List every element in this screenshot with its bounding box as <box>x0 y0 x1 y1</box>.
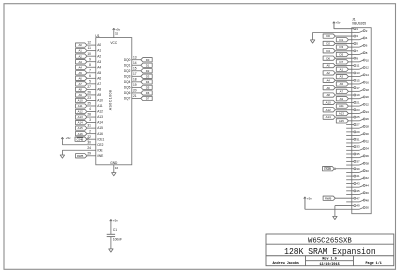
svg-text:D6: D6 <box>326 56 330 60</box>
J1 pin 14 circle + number <box>352 73 370 77</box>
svg-text:D2: D2 <box>326 42 330 46</box>
svg-text:35: 35 <box>356 152 360 156</box>
J1 pin 32 circle + number <box>352 139 370 143</box>
svg-text:A3: A3 <box>78 60 82 64</box>
U1 pin 15 (DQ2) wire + net flag D2 <box>124 66 152 73</box>
net flag D2 + wire to J1 pin 5 <box>323 41 352 45</box>
net flag A2 + wire to U1 pin 10 (A2) <box>76 52 102 59</box>
J1 pin 38 stub (unconnected) <box>346 164 352 166</box>
J1 pin 37 circle + number <box>352 159 360 163</box>
svg-text:D1: D1 <box>146 63 150 67</box>
svg-text:32: 32 <box>366 139 370 143</box>
J1 pin 20 circle + number <box>352 95 370 99</box>
J1 pin 12 circle + number <box>352 66 370 70</box>
net flag A1 + wire to U1 pin 11 (A1) <box>76 46 102 53</box>
svg-text:18: 18 <box>366 88 370 92</box>
svg-text:36: 36 <box>366 154 370 158</box>
J1 pin 30 stub (unconnected) <box>346 135 352 137</box>
svg-text:A5: A5 <box>78 71 82 75</box>
svg-text:D4: D4 <box>326 49 330 53</box>
net flag A14 + wire to J1 pin 25 <box>323 115 352 119</box>
svg-text:7: 7 <box>89 68 91 72</box>
svg-text:17: 17 <box>133 72 137 76</box>
net flag A15 + wire to U1 pin 31 (A15) <box>76 124 104 131</box>
svg-text:XBUS265: XBUS265 <box>352 22 366 26</box>
svg-text:15: 15 <box>133 66 137 70</box>
svg-text:13: 13 <box>133 55 137 59</box>
svg-text:49: 49 <box>356 204 360 208</box>
net flag A11 + wire to J1 pin 22 <box>336 104 352 108</box>
svg-text:CS4B: CS4B <box>324 167 331 171</box>
J1 pin 35 circle + number <box>352 152 360 156</box>
net flag CS4B (active low) + wire to U1 pin 22 (/CE1) <box>75 135 105 142</box>
svg-text:D7: D7 <box>340 60 344 64</box>
svg-text:A0: A0 <box>78 43 82 47</box>
svg-text:A10: A10 <box>97 99 103 103</box>
svg-text:23: 23 <box>87 96 91 100</box>
J1 pin 46 circle + number <box>352 191 370 195</box>
svg-text:W65C265SXB: W65C265SXB <box>308 237 352 245</box>
J1 pin 39 circle + number <box>352 167 360 171</box>
net flag A8 + wire to U1 pin 27 (A8) <box>76 85 102 92</box>
J1 pin 29 stub (unconnected) <box>346 131 352 133</box>
svg-text:A14: A14 <box>97 121 103 125</box>
J1 pin 42 circle + number <box>352 176 370 180</box>
J1 pin 21 circle + number <box>352 101 360 105</box>
J1 pin 26 circle + number <box>352 117 370 121</box>
svg-text:D0: D0 <box>146 58 150 62</box>
title text 128K SRAM Expansion <box>284 247 376 257</box>
J1 pin 47 circle + number <box>352 196 360 200</box>
svg-text:RWB: RWB <box>77 154 83 158</box>
J1 pin 11 circle + number <box>352 64 360 68</box>
svg-text:A14: A14 <box>326 115 331 119</box>
net flag A7 + wire to U1 pin 5 (A7) <box>76 79 102 86</box>
svg-text:A2: A2 <box>78 54 82 58</box>
svg-text:32: 32 <box>115 32 119 36</box>
net flag A15 + wire to J1 pin 26 <box>336 119 352 123</box>
J1 pin 36 stub (unconnected) <box>346 157 352 159</box>
svg-text:A8: A8 <box>326 93 330 97</box>
svg-text:VCC: VCC <box>110 41 117 45</box>
net flag D0 + wire to J1 pin 3 <box>323 34 352 38</box>
svg-text:D5: D5 <box>340 53 344 57</box>
svg-text:25: 25 <box>87 102 91 106</box>
svg-text:9: 9 <box>89 57 91 61</box>
J1 pin 33 circle + number <box>352 145 360 149</box>
J1 pin 34 circle + number <box>352 147 370 151</box>
J1 pin 15 circle + number <box>352 78 360 82</box>
svg-text:A15: A15 <box>78 126 83 130</box>
svg-text:16: 16 <box>366 80 370 84</box>
J1 pin 17 circle + number <box>352 86 360 90</box>
U1 pin 19 (DQ5) wire + net flag D5 <box>124 83 152 90</box>
capacitor C1 100nF decoupling <box>107 219 122 252</box>
svg-text:A8: A8 <box>78 87 82 91</box>
J1 pin 44 stub (unconnected) <box>346 186 352 188</box>
svg-text:A7: A7 <box>340 89 344 93</box>
svg-text:24: 24 <box>366 110 370 114</box>
J1 pin 5 circle + number <box>352 42 359 46</box>
+5V symbol + wire to J1 pin 50 <box>304 197 352 210</box>
J1 pin 48 stub (unconnected) <box>346 201 352 203</box>
net flag D6 + wire to J1 pin 9 <box>323 56 352 60</box>
svg-text:19: 19 <box>133 83 137 87</box>
svg-text:D6: D6 <box>146 91 150 95</box>
svg-text:DQ2: DQ2 <box>124 69 131 73</box>
net flag D1 + wire to J1 pin 4 <box>336 38 352 42</box>
svg-text:21: 21 <box>133 94 137 98</box>
svg-text:A13: A13 <box>339 112 344 116</box>
IC U1 AS6C1008 128Kx8 SRAM body <box>95 34 132 165</box>
svg-text:DQ3: DQ3 <box>124 74 131 78</box>
svg-text:18: 18 <box>133 77 137 81</box>
J1 pin 28 circle + number <box>352 125 370 129</box>
svg-text:6: 6 <box>89 74 91 78</box>
J1 pin 46 stub (unconnected) <box>346 194 352 196</box>
svg-text:128K SRAM Expansion: 128K SRAM Expansion <box>284 247 376 257</box>
svg-text:8: 8 <box>89 63 91 67</box>
+5V symbol + wire to U1 pin 32 (VCC) <box>113 27 121 37</box>
svg-text:DQ6: DQ6 <box>124 91 131 95</box>
J1 pin 45 stub (unconnected) <box>346 190 352 192</box>
J1 pin 27 circle + number <box>352 123 360 127</box>
title text W65C265SXB <box>308 237 352 245</box>
svg-text:39: 39 <box>356 167 360 171</box>
ground symbol + wire to J1 pin 2 <box>310 32 351 43</box>
svg-text:2: 2 <box>89 129 91 133</box>
net flag A16 + wire to U1 pin 2 (A16) <box>76 129 104 136</box>
J1 pin 41 stub (unconnected) <box>346 175 352 177</box>
J1 pin 50 circle + number <box>352 206 370 210</box>
J1 pin 33 stub (unconnected) <box>346 146 352 148</box>
svg-text:A6: A6 <box>78 76 82 80</box>
ground symbol + wire from U1 pin 16 (GND) <box>112 165 119 176</box>
J1 pin 7 circle + number <box>352 49 359 53</box>
svg-text:D0: D0 <box>326 34 330 38</box>
svg-text:Rev 1.0: Rev 1.0 <box>322 258 336 262</box>
svg-text:A7: A7 <box>97 82 101 86</box>
net flag A10 + wire to J1 pin 21 <box>323 100 352 104</box>
J1 pin 18 circle + number <box>352 88 370 92</box>
svg-text:41: 41 <box>356 174 360 178</box>
U1 pin 20 (DQ6) wire + net flag D6 <box>124 89 152 96</box>
net flag A7 + wire to J1 pin 18 <box>336 89 352 93</box>
svg-text:A11: A11 <box>97 104 103 108</box>
svg-text:25: 25 <box>356 115 360 119</box>
net flag A0 + wire to U1 pin 12 (A0) <box>76 41 102 48</box>
net flag A8 + wire to J1 pin 19 <box>323 93 352 97</box>
svg-text:RWB: RWB <box>325 196 331 200</box>
svg-text:A6: A6 <box>326 86 330 90</box>
svg-text:27: 27 <box>356 123 360 127</box>
net flag D3 + wire to J1 pin 6 <box>336 45 352 49</box>
svg-text:29: 29 <box>356 130 360 134</box>
svg-text:30: 30 <box>87 140 91 144</box>
J1 pin 27 stub (unconnected) <box>346 124 352 126</box>
svg-text:31: 31 <box>356 137 360 141</box>
svg-text:A15: A15 <box>97 126 103 130</box>
net flag A11 + wire to U1 pin 25 (A11) <box>76 102 103 109</box>
U1 pin 13 (DQ0) wire + net flag D0 <box>124 55 152 62</box>
svg-text:AS6C1008: AS6C1008 <box>109 90 113 111</box>
J1 pin 30 circle + number <box>352 132 370 136</box>
svg-text:14: 14 <box>133 61 137 65</box>
svg-text:50: 50 <box>366 206 370 210</box>
svg-text:A9: A9 <box>78 93 82 97</box>
net flag A5 + wire to J1 pin 16 <box>336 82 352 86</box>
connector J1 XBUS265 body <box>352 18 371 214</box>
svg-text:A12: A12 <box>326 108 331 112</box>
net flag A5 + wire to U1 pin 7 (A5) <box>76 68 102 75</box>
svg-text:A5: A5 <box>340 82 344 86</box>
svg-text:14: 14 <box>366 73 370 77</box>
J1 pin 16 circle + number <box>352 80 370 84</box>
net flag A13 + wire to J1 pin 24 <box>336 111 352 115</box>
svg-text:20: 20 <box>366 95 370 99</box>
U1 pin 18 (DQ4) wire + net flag D4 <box>124 77 152 84</box>
svg-text:10: 10 <box>87 52 91 56</box>
net flag RWB + wire to J1 pin 47 <box>323 196 352 200</box>
svg-text:A15: A15 <box>339 119 344 123</box>
J1 pin 40 circle + number <box>352 169 370 173</box>
svg-text:A3: A3 <box>340 75 344 79</box>
U1 pin 17 (DQ3) wire + net flag D3 <box>124 72 152 79</box>
svg-text:A1: A1 <box>340 67 344 71</box>
J1 pin 40 stub (unconnected) <box>346 171 352 173</box>
svg-text:U1: U1 <box>95 34 99 38</box>
svg-text:D7: D7 <box>146 97 150 101</box>
svg-text:10: 10 <box>366 58 370 62</box>
svg-text:A7: A7 <box>78 82 82 86</box>
svg-text:11: 11 <box>356 64 359 68</box>
svg-text:A1: A1 <box>97 49 101 53</box>
svg-text:37: 37 <box>356 159 360 163</box>
svg-text:DQ7: DQ7 <box>124 97 131 101</box>
J1 pin 4 circle + number <box>352 36 368 40</box>
svg-text:17: 17 <box>356 86 360 90</box>
J1 pin 2 circle + number <box>352 29 368 33</box>
svg-text:A9: A9 <box>340 97 344 101</box>
svg-text:A0: A0 <box>97 43 101 47</box>
svg-text:24: 24 <box>87 146 91 150</box>
net flag A1 + wire to J1 pin 12 <box>336 67 352 71</box>
svg-text:A9: A9 <box>97 93 101 97</box>
ground symbol + wire to U1 pin 24 (/OE) <box>60 146 102 158</box>
svg-text:CS4B: CS4B <box>77 137 84 141</box>
net flag A3 + wire to U1 pin 9 (A3) <box>76 57 102 64</box>
J1 pin 3 circle + number <box>352 34 359 38</box>
svg-text:DQ5: DQ5 <box>124 85 131 89</box>
svg-text:/OE: /OE <box>97 148 103 152</box>
svg-text:46: 46 <box>366 191 370 195</box>
svg-text:A10: A10 <box>326 101 331 105</box>
J1 pin 6 circle + number <box>352 44 368 48</box>
svg-text:21: 21 <box>356 101 360 105</box>
svg-text:4: 4 <box>89 107 91 111</box>
svg-text:GND: GND <box>110 161 118 165</box>
J1 pin 36 circle + number <box>352 154 370 158</box>
svg-text:A6: A6 <box>97 76 101 80</box>
svg-text:100nF: 100nF <box>113 238 122 242</box>
svg-text:A13: A13 <box>97 115 103 119</box>
svg-text:C1: C1 <box>113 228 117 232</box>
svg-text:13: 13 <box>356 71 360 75</box>
svg-text:D2: D2 <box>146 69 150 73</box>
J1 pin 23 circle + number <box>352 108 360 112</box>
svg-text:40: 40 <box>366 169 370 173</box>
net flag RWB + wire to U1 pin 29 (/WE) <box>76 151 104 158</box>
net flag A6 + wire to U1 pin 6 (A6) <box>76 74 102 81</box>
svg-text:27: 27 <box>87 85 91 89</box>
J1 pin 22 circle + number <box>352 102 370 106</box>
svg-text:26: 26 <box>87 91 91 95</box>
net flag A4 + wire to J1 pin 15 <box>323 78 352 82</box>
svg-text:12: 12 <box>87 41 91 45</box>
svg-text:A2: A2 <box>326 71 330 75</box>
svg-text:19: 19 <box>356 93 360 97</box>
svg-text:31: 31 <box>87 124 91 128</box>
svg-text:D3: D3 <box>146 74 150 78</box>
svg-text:D1: D1 <box>340 38 344 42</box>
J1 pin 42 stub (unconnected) <box>346 179 352 181</box>
J1 pin 1 circle + number <box>352 27 359 31</box>
svg-text:DQ0: DQ0 <box>124 58 131 62</box>
net flag A12 + wire to J1 pin 23 <box>323 108 352 112</box>
J1 pin 29 circle + number <box>352 130 360 134</box>
J1 pin 32 stub (unconnected) <box>346 142 352 144</box>
svg-text:/WE: /WE <box>97 154 103 158</box>
net flag A4 + wire to U1 pin 8 (A4) <box>76 63 102 70</box>
J1 pin 19 circle + number <box>352 93 360 97</box>
J1 pin 38 circle + number <box>352 161 370 165</box>
svg-text:48: 48 <box>366 198 370 202</box>
net flag A14 + wire to U1 pin 3 (A14) <box>76 118 104 125</box>
svg-text:A3: A3 <box>97 60 101 64</box>
J1 pin 8 circle + number <box>352 51 368 55</box>
svg-text:15: 15 <box>356 78 360 82</box>
svg-text:A10: A10 <box>78 99 83 103</box>
svg-text:A12: A12 <box>97 110 103 114</box>
svg-text:20: 20 <box>133 89 137 93</box>
J1 pin 49 circle + number <box>352 204 360 208</box>
J1 pin 34 stub (unconnected) <box>346 149 352 151</box>
svg-text:12: 12 <box>366 66 370 70</box>
svg-text:DQ1: DQ1 <box>124 63 131 67</box>
title block author / rev / date / page <box>273 258 382 267</box>
U1 pin 21 (DQ7) wire + net flag D7 <box>124 94 152 101</box>
svg-text:30: 30 <box>366 132 370 136</box>
svg-text:A5: A5 <box>97 71 101 75</box>
net flag A13 + wire to U1 pin 28 (A13) <box>76 113 104 120</box>
svg-text:16: 16 <box>115 166 119 170</box>
ground symbol + wire to J1 pin 49 <box>333 206 352 220</box>
svg-text:+5v: +5v <box>307 197 312 201</box>
net flag A2 + wire to J1 pin 13 <box>323 71 352 75</box>
net flag A12 + wire to U1 pin 4 (A12) <box>76 107 104 114</box>
J1 pin 31 circle + number <box>352 137 360 141</box>
svg-text:A4: A4 <box>78 65 82 69</box>
net flag A6 + wire to J1 pin 17 <box>323 86 352 90</box>
svg-text:45: 45 <box>356 189 360 193</box>
J1 pin 10 circle + number <box>352 58 370 62</box>
+5V symbol + wire to U1 pin 30 (CE2) <box>61 136 103 147</box>
title block <box>266 234 394 266</box>
svg-text:+5v: +5v <box>66 136 71 140</box>
svg-text:Andrew Jacobs: Andrew Jacobs <box>273 261 299 266</box>
svg-text:A16: A16 <box>78 132 83 136</box>
J1 pin 43 stub (unconnected) <box>346 182 352 184</box>
svg-text:D5: D5 <box>146 85 150 89</box>
svg-text:28: 28 <box>87 113 91 117</box>
J1 pin 45 circle + number <box>352 189 360 193</box>
net flag D4 + wire to J1 pin 7 <box>323 49 352 53</box>
svg-text:A0: A0 <box>326 64 330 68</box>
svg-text:+5v: +5v <box>336 21 341 25</box>
svg-text:38: 38 <box>366 161 370 165</box>
J1 pin 37 stub (unconnected) <box>346 160 352 162</box>
svg-text:A11: A11 <box>339 104 344 108</box>
J1 pin 28 stub (unconnected) <box>346 127 352 129</box>
svg-text:12/10/2015: 12/10/2015 <box>319 262 339 267</box>
svg-text:23: 23 <box>356 108 360 112</box>
net flag D5 + wire to J1 pin 8 <box>336 52 352 56</box>
J1 pin 31 stub (unconnected) <box>346 138 352 140</box>
svg-text:A4: A4 <box>97 65 101 69</box>
J1 pin 25 circle + number <box>352 115 360 119</box>
svg-text:43: 43 <box>356 182 360 186</box>
svg-text:28: 28 <box>366 125 370 129</box>
svg-text:5: 5 <box>89 79 91 83</box>
J1 pin 43 circle + number <box>352 182 360 186</box>
svg-text:3: 3 <box>89 118 91 122</box>
svg-text:11: 11 <box>88 46 92 50</box>
svg-text:22: 22 <box>87 135 91 139</box>
svg-text:33: 33 <box>356 145 360 149</box>
svg-text:A16: A16 <box>97 132 103 136</box>
svg-text:Page 1/1: Page 1/1 <box>366 261 382 266</box>
svg-text:22: 22 <box>366 102 370 106</box>
svg-text:/CE1: /CE1 <box>97 137 104 141</box>
svg-text:A14: A14 <box>78 121 83 125</box>
svg-text:A1: A1 <box>78 49 82 53</box>
+5V symbol + wire to J1 pin 1 <box>333 21 352 29</box>
net flag A9 + wire to U1 pin 26 (A9) <box>76 91 102 98</box>
svg-text:26: 26 <box>366 117 370 121</box>
J1 pin 48 circle + number <box>352 198 370 202</box>
svg-text:34: 34 <box>366 147 370 151</box>
J1 pin 13 circle + number <box>352 71 360 75</box>
svg-text:A11: A11 <box>78 104 83 108</box>
svg-text:29: 29 <box>87 151 91 155</box>
svg-text:D3: D3 <box>340 45 344 49</box>
svg-text:A12: A12 <box>78 110 83 114</box>
J1 pin 9 circle + number <box>352 56 359 60</box>
J1 pin 41 circle + number <box>352 174 360 178</box>
J1 pin 44 circle + number <box>352 184 370 188</box>
net flag A3 + wire to J1 pin 14 <box>336 74 352 78</box>
svg-text:47: 47 <box>356 196 360 200</box>
net flag CS4B (active low) + wire to J1 pin 39 <box>323 167 352 171</box>
svg-text:A13: A13 <box>78 115 83 119</box>
net flag D7 + wire to J1 pin 10 <box>336 60 352 64</box>
svg-text:+5v: +5v <box>113 219 118 223</box>
svg-text:CE2: CE2 <box>97 143 103 147</box>
J1 pin 35 stub (unconnected) <box>346 153 352 155</box>
net flag A9 + wire to J1 pin 20 <box>336 97 352 101</box>
svg-text:A4: A4 <box>326 78 330 82</box>
svg-text:42: 42 <box>366 176 370 180</box>
